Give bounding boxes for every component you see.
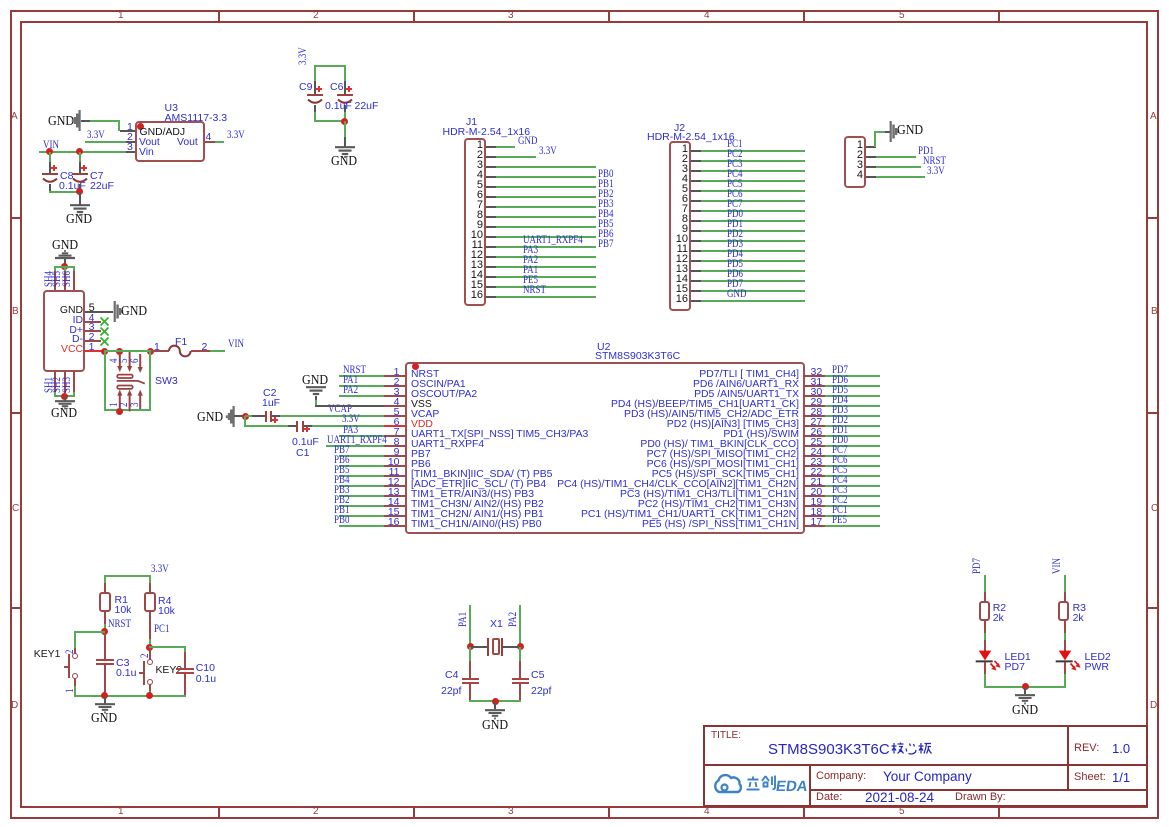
node PA1 [523, 265, 538, 277]
resistor R4 [149, 583, 151, 593]
wire VDD 3.3V [312, 425, 384, 427]
node PC3 [727, 159, 742, 171]
pin 15 [471, 280, 483, 291]
junction [101, 628, 108, 635]
junction [517, 643, 524, 650]
capacitor C1 [292, 437, 319, 448]
resistor R1 [104, 583, 106, 593]
pin 4 [682, 174, 688, 185]
pin SH4 [54, 271, 56, 291]
capacitor C2 [263, 388, 276, 399]
pin 5 GND [60, 306, 83, 316]
pin 4 [206, 132, 212, 143]
pin 11 [389, 467, 400, 478]
wire [81, 120, 90, 122]
pin 13 [388, 487, 400, 498]
ground [79, 192, 81, 205]
wire [984, 575, 986, 593]
node VIN [1052, 558, 1064, 574]
wire [874, 131, 876, 147]
pin 6 [394, 417, 400, 428]
op-amp U3 [165, 103, 178, 114]
pin 31 [811, 377, 823, 388]
pin SH1 [54, 372, 56, 393]
resistor R2 [984, 592, 986, 602]
node PD5 [727, 259, 743, 271]
junction [116, 408, 123, 415]
junction [61, 263, 68, 270]
pin 16 [388, 517, 400, 528]
node PD1 [918, 146, 934, 158]
pin 12 [388, 477, 400, 488]
node 3.3V [227, 130, 245, 142]
node GND [727, 289, 746, 301]
pin 12 [471, 250, 483, 261]
pin 7 [682, 204, 688, 215]
pin 1 [857, 140, 863, 151]
junction [1022, 683, 1029, 690]
pin 3 D+ [69, 326, 83, 336]
pin 10 [388, 457, 400, 468]
no-connect flag [100, 327, 109, 336]
pin 27 [811, 417, 823, 428]
pin 4 [477, 170, 483, 181]
capacitor C6 [344, 81, 346, 94]
frame ruler ticks bottom [218, 807, 220, 817]
pin 14 [471, 270, 483, 281]
junction [242, 413, 249, 420]
pin 21 [811, 477, 823, 488]
junction [341, 118, 348, 125]
pin 15 [388, 507, 400, 518]
switch KEY1 [74, 648, 76, 654]
pin 4 ID [73, 316, 83, 326]
connector J2 [669, 141, 691, 311]
junction [146, 644, 153, 651]
pin 23 [811, 457, 823, 468]
pin 11 [677, 244, 688, 255]
pin 9 [682, 224, 688, 235]
pin 8 [394, 437, 400, 448]
pin 1 [477, 140, 483, 151]
pin 5 [682, 184, 688, 195]
wire [90, 120, 120, 122]
ground above VSS [302, 374, 328, 388]
pin 10 [471, 230, 483, 241]
pin 3 [477, 160, 483, 171]
pin 22 [811, 467, 823, 478]
frame ruler ticks right [1148, 217, 1158, 219]
node 3.3V (rotated) [298, 47, 310, 65]
pin 6 [682, 194, 688, 205]
pin 6 [130, 358, 142, 362]
pin 26 [811, 427, 823, 438]
node PA2 [523, 255, 538, 267]
ic U2 [405, 362, 805, 534]
pin 6 [477, 190, 483, 201]
wire 3.3V [85, 141, 126, 143]
pin 1 [65, 688, 77, 692]
ground GND power port (text right) [113, 301, 124, 323]
node PC5 [727, 179, 742, 191]
pin 18 [811, 507, 823, 518]
node PD7 [727, 279, 743, 291]
pin 19 [811, 497, 823, 508]
wire VIN [210, 350, 226, 352]
junction [147, 348, 154, 355]
connector USB [43, 290, 85, 372]
wire [314, 120, 346, 122]
junction [116, 348, 123, 355]
ground [344, 121, 346, 137]
node PD0 [727, 209, 743, 221]
pin 2 D- [72, 335, 83, 345]
pin SH3 [73, 372, 75, 393]
node 3.3V [539, 146, 557, 158]
wire [74, 695, 186, 697]
pin 2 [682, 154, 688, 165]
node NRST [923, 156, 946, 168]
node NRST [108, 619, 131, 631]
junction [61, 393, 68, 400]
ground GND power port (text left) [48, 115, 74, 129]
resistor R3 [1064, 592, 1066, 602]
capacitor C5 [519, 647, 521, 662]
pin 2 [394, 377, 400, 388]
junction [46, 148, 53, 155]
switch KEY2 [149, 648, 151, 660]
node PD4 [727, 249, 743, 261]
frame column numbers bottom [118, 807, 124, 817]
svg-text:EDA: EDA [775, 778, 809, 795]
junction [76, 148, 83, 155]
pin SH2 [64, 372, 66, 393]
wire [54, 266, 74, 268]
junction [146, 692, 153, 699]
logo EasyEDA [711, 772, 806, 799]
node PD1 [727, 219, 743, 231]
pin 5 [119, 358, 131, 362]
wire VIN [39, 151, 126, 153]
wire [104, 575, 151, 577]
pin 14 [676, 274, 688, 285]
pin 3 [130, 402, 142, 406]
node PD3 [727, 239, 743, 251]
connector J1 [464, 138, 486, 306]
node PD2 [727, 229, 743, 241]
node 3.3V [151, 564, 169, 576]
node VIN [228, 339, 244, 351]
node PC1 [154, 624, 169, 636]
pin 3 [127, 142, 133, 153]
node 3.3V [342, 414, 360, 426]
pin 3 [857, 160, 863, 171]
wire [1064, 575, 1066, 593]
diode LED1 [975, 650, 1003, 674]
pin 3 [682, 164, 688, 175]
ground [104, 697, 106, 704]
node PD6 [727, 269, 743, 281]
pin 5 [394, 407, 400, 418]
node PB3 [598, 199, 613, 211]
ground (top) [52, 239, 78, 253]
node PB4 [598, 209, 613, 221]
wire [244, 416, 246, 427]
wire [74, 631, 105, 633]
pin 2 [140, 653, 152, 657]
wire [49, 191, 80, 193]
pin 8 [682, 214, 688, 225]
pin 1 [140, 694, 152, 698]
capacitor C10 [149, 646, 186, 648]
node PC6 [727, 189, 742, 201]
switch SW3 [110, 352, 158, 412]
capacitor C7 [79, 152, 81, 163]
node PC2 [727, 149, 742, 161]
fuse F1 [175, 337, 187, 348]
node PA1 [458, 612, 470, 627]
frame row letters left [11, 112, 18, 122]
pin 2 [857, 150, 863, 161]
pin 14 [388, 497, 400, 508]
ground (bottom) [64, 396, 66, 401]
pin 1 VCC [61, 345, 83, 355]
node PB0 [598, 169, 613, 181]
pin 12 [676, 254, 688, 265]
node NRST [523, 285, 546, 297]
wire PA2 [519, 605, 521, 648]
node VCAP [328, 404, 352, 416]
pin 8 [477, 210, 483, 221]
node PC4 [727, 169, 742, 181]
pin 2 [65, 649, 77, 653]
pin 15 [676, 284, 688, 295]
ground [494, 702, 496, 710]
junction [492, 698, 499, 705]
pin 25 [811, 437, 823, 448]
pin 30 [811, 387, 823, 398]
pin 1 [394, 367, 400, 378]
pin 4 [109, 358, 121, 362]
frame ruler ticks left [12, 217, 21, 219]
node PC7 [727, 199, 742, 211]
node VIN [43, 140, 59, 152]
pin 24 [811, 447, 823, 458]
frame column numbers top [118, 11, 124, 21]
wire [104, 350, 106, 411]
ground [1024, 688, 1026, 695]
wire [54, 395, 74, 397]
pin 3 [394, 387, 400, 398]
pin 9 [394, 447, 400, 458]
pin 16 [676, 294, 688, 305]
no-connect flag [100, 317, 109, 326]
pin 1 [127, 122, 133, 133]
frame row letters right [1150, 112, 1157, 122]
node PA2 [508, 612, 520, 627]
pin 2 [127, 132, 133, 143]
node 3.3V [87, 130, 105, 142]
pin 7 [394, 427, 400, 438]
crystal X1 [490, 619, 503, 630]
pin 2 [119, 402, 131, 406]
pin 28 [811, 407, 823, 418]
pin SH6 [73, 271, 75, 291]
node PE5 [523, 275, 538, 287]
node PB5 [598, 219, 613, 231]
pin 16 [471, 290, 483, 301]
pin 4 [857, 170, 863, 181]
junction [101, 348, 108, 355]
pin 5 [477, 180, 483, 191]
ground GND power port (text left) [197, 411, 223, 425]
frame ruler ticks top [218, 12, 220, 21]
wire PA1 [469, 605, 471, 648]
wire [149, 350, 151, 411]
wire [984, 686, 1066, 688]
pin 32 [811, 367, 823, 378]
node 3.3V [927, 166, 945, 178]
node GND [518, 136, 537, 148]
wire [469, 700, 521, 702]
capacitor C9 [314, 81, 316, 94]
wire [314, 65, 346, 67]
node PB1 [598, 179, 613, 191]
pin 11 [472, 240, 483, 251]
node PD7 [972, 558, 984, 574]
pin 2 [477, 150, 483, 161]
pin 17 [811, 517, 823, 528]
node PB6 [598, 229, 613, 241]
node PC1 [727, 139, 742, 151]
junction [467, 643, 474, 650]
capacitor C3 [104, 633, 106, 659]
pin 20 [811, 487, 823, 498]
pin 13 [471, 260, 483, 271]
capacitor C8 [49, 152, 51, 163]
node PB7 [598, 239, 613, 251]
junction [76, 188, 83, 195]
pin 10 [676, 234, 688, 245]
node UART1_RXPF4 [523, 235, 583, 247]
wire [104, 409, 151, 411]
pin 9 [477, 220, 483, 231]
wire VCC rail [105, 350, 152, 352]
pin 1 [109, 402, 121, 406]
no-connect flag [100, 337, 109, 346]
connector P1 [844, 136, 866, 188]
junction [101, 692, 108, 699]
pin 13 [676, 264, 688, 275]
ground GND power port (text right) [889, 121, 900, 143]
capacitor C4 [469, 647, 471, 662]
pin 4 [394, 397, 400, 408]
pin 29 [811, 397, 823, 408]
pin SH5 [64, 271, 66, 291]
node PA3 [523, 245, 538, 257]
node PB2 [598, 189, 613, 201]
wire [315, 400, 317, 407]
wire [215, 141, 224, 143]
pin 1 [682, 144, 688, 155]
wire VCAP [280, 415, 384, 417]
pin 7 [477, 200, 483, 211]
diode LED2 [1055, 650, 1083, 674]
